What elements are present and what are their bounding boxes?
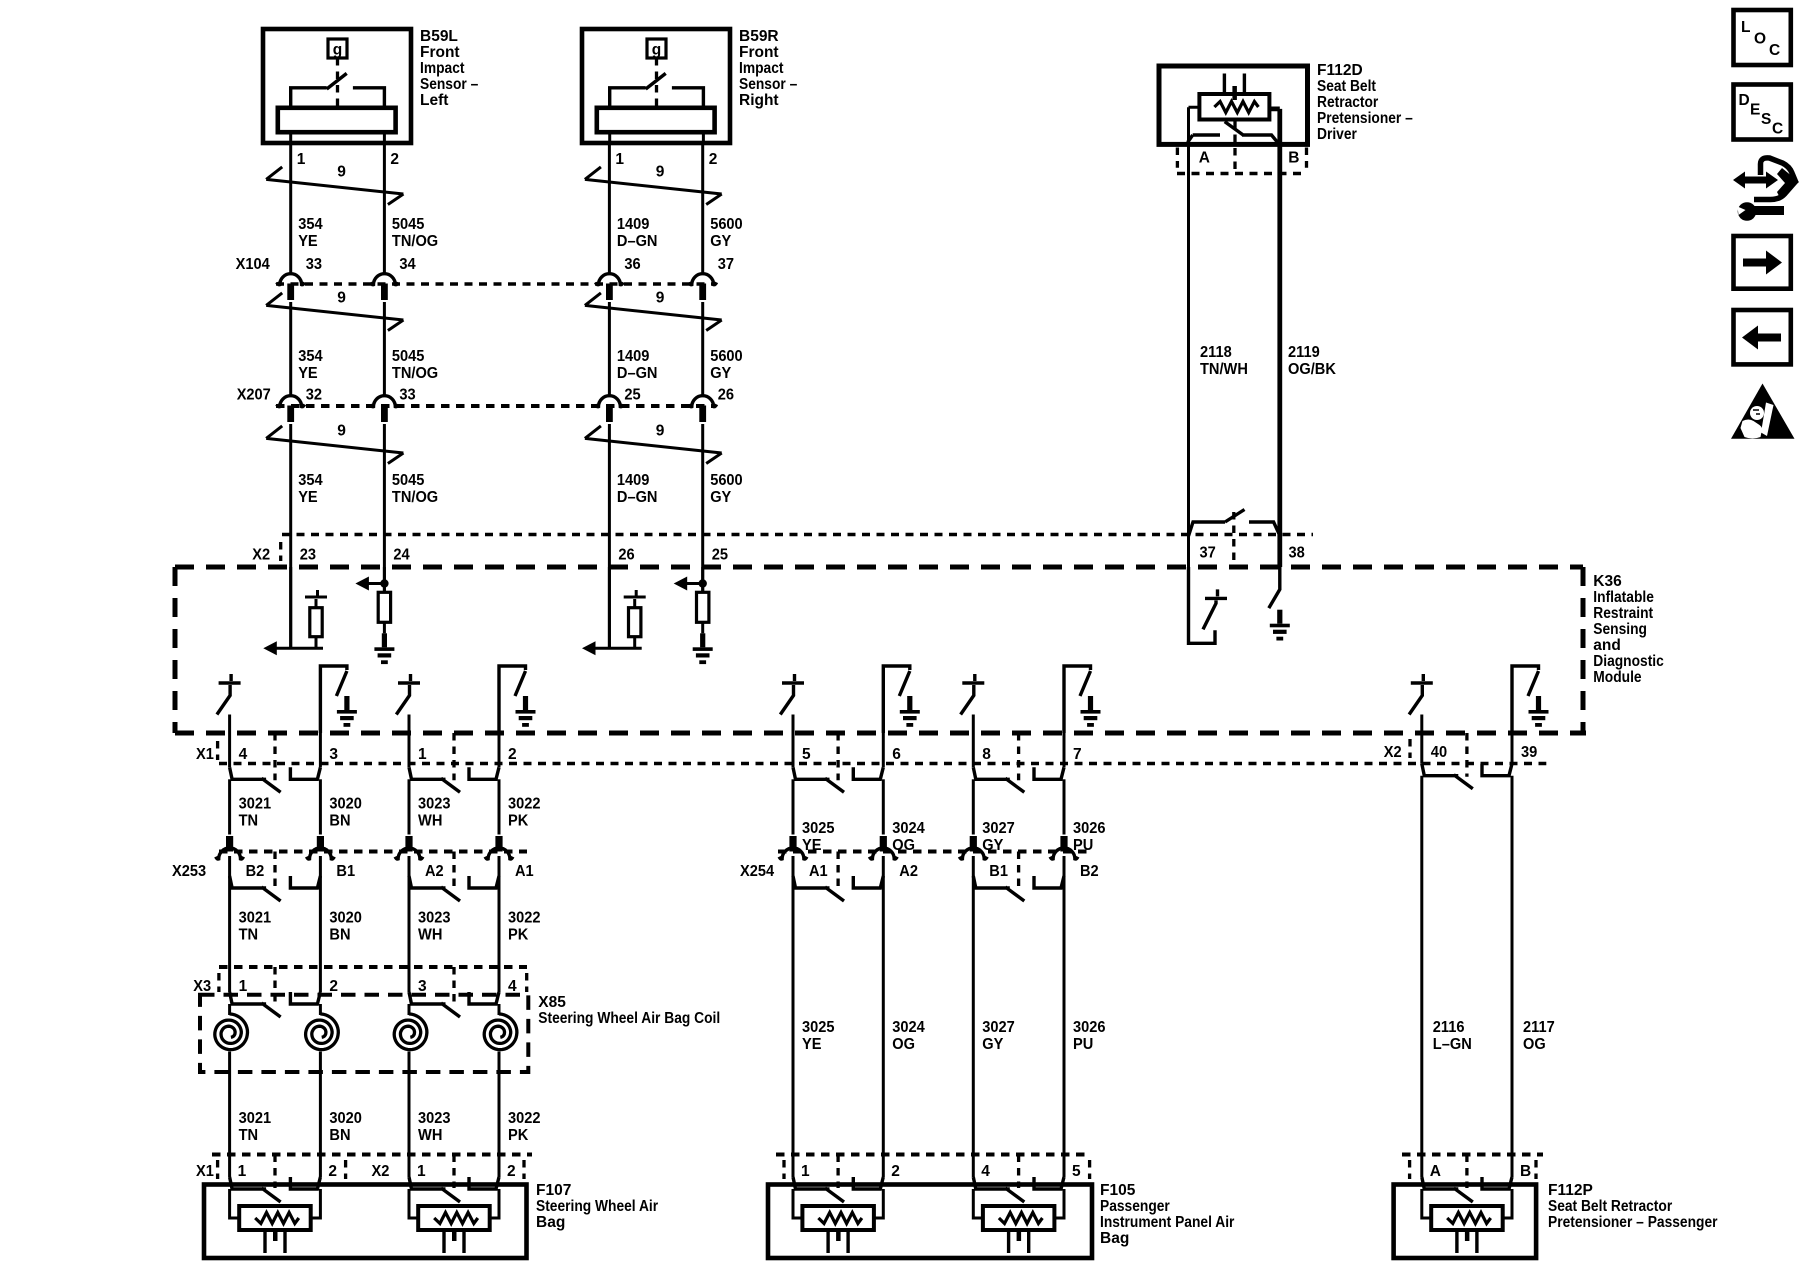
bracket at F112P pins A-B xyxy=(1465,1155,1468,1189)
component box F107 Steering Wheel Air Bag xyxy=(204,1185,527,1259)
svg-text:9: 9 xyxy=(337,290,346,307)
svg-text:3020: 3020 xyxy=(329,910,362,927)
svg-text:X2: X2 xyxy=(372,1163,390,1180)
X253 terminal A2 xyxy=(405,836,412,852)
svg-text:B1: B1 xyxy=(989,863,1008,880)
svg-text:D–GN: D–GN xyxy=(617,233,658,250)
SDM switch to ground on pin 6 xyxy=(883,666,910,733)
twisted pair marker right row 2 xyxy=(585,293,722,331)
wire pin 5 inside SDM xyxy=(792,715,795,734)
svg-text:3023: 3023 xyxy=(418,796,451,813)
svg-text:4: 4 xyxy=(981,1163,990,1180)
component box B59L Front Impact Sensor - Left xyxy=(263,29,411,143)
svg-text:TN/OG: TN/OG xyxy=(392,365,438,382)
wire 3020 BN middle segment xyxy=(319,856,322,967)
wire 5045 TN/OG row3 xyxy=(383,424,386,592)
svg-text:3021: 3021 xyxy=(239,796,272,813)
X253 terminal B2 xyxy=(226,836,233,852)
bracket at X3 pins 1-2 xyxy=(273,967,276,1005)
svg-text:C: C xyxy=(1769,42,1780,59)
wire 2117 OG segment xyxy=(1511,776,1514,1155)
svg-text:B: B xyxy=(1520,1163,1531,1180)
svg-text:Module: Module xyxy=(1593,669,1642,686)
SDM switch to ground on pin 7 xyxy=(1064,666,1091,733)
svg-text:2: 2 xyxy=(508,746,517,763)
svg-text:Steering Wheel Air Bag Coil: Steering Wheel Air Bag Coil xyxy=(538,1010,720,1027)
connector dashed line at F105 xyxy=(776,1153,1088,1157)
svg-text:TN/WH: TN/WH xyxy=(1200,361,1248,378)
svg-text:g: g xyxy=(333,42,342,59)
wire 354 YE row2 xyxy=(289,302,292,396)
wire 2118 TN/WH (F112D A to K36 X2-37) xyxy=(1187,144,1190,567)
svg-text:X1: X1 xyxy=(196,1163,214,1180)
svg-text:2116: 2116 xyxy=(1433,1019,1465,1036)
wire 3022 PK middle segment xyxy=(498,856,501,967)
svg-text:GY: GY xyxy=(710,489,732,506)
svg-text:A2: A2 xyxy=(899,863,918,880)
bracket at X253 B2-B1 xyxy=(273,852,276,890)
bracket at X3 pins 3-4 xyxy=(452,967,455,1005)
SDM driver on pin 5 xyxy=(780,674,804,715)
svg-text:BN: BN xyxy=(329,1127,350,1144)
wire 3020 BN upper segment xyxy=(319,779,322,834)
svg-text:40: 40 xyxy=(1431,744,1447,761)
wire 1409 D-GN (B59R pin 1 to X104-36) xyxy=(608,143,611,274)
svg-text:1: 1 xyxy=(417,1163,426,1180)
SDM switch to ground on pin 2 xyxy=(499,666,526,733)
air bag coil spiral at pin 1 xyxy=(228,1004,231,1015)
component box B59R Front Impact Sensor - Right xyxy=(582,29,730,143)
svg-text:24: 24 xyxy=(393,547,410,564)
svg-text:Inflatable: Inflatable xyxy=(1593,589,1654,606)
svg-text:3024: 3024 xyxy=(892,1019,925,1036)
connector X2 dashed line (SDM upper) xyxy=(282,533,1313,536)
twisted pair marker left row 1 xyxy=(266,167,403,205)
wire F112D pin B internal xyxy=(1269,109,1280,144)
svg-text:8: 8 xyxy=(982,746,991,763)
svg-text:3027: 3027 xyxy=(982,1019,1015,1036)
svg-text:D–GN: D–GN xyxy=(617,489,658,506)
X207 terminal 33 xyxy=(371,396,399,407)
svg-text:F105: F105 xyxy=(1100,1182,1136,1199)
svg-text:1409: 1409 xyxy=(617,472,650,489)
svg-text:A1: A1 xyxy=(515,863,534,880)
connector X254 dashed line xyxy=(778,850,1090,854)
connector X104 dashed line xyxy=(276,282,714,285)
svg-text:E: E xyxy=(1750,102,1760,119)
svg-text:3025: 3025 xyxy=(802,1019,835,1036)
X254 terminal B2 xyxy=(1060,836,1067,852)
SDM internal driver on pin 37 xyxy=(1189,567,1216,643)
svg-text:26: 26 xyxy=(618,547,635,564)
svg-text:2118: 2118 xyxy=(1200,344,1232,361)
bracket at X253 A2-A1 xyxy=(452,852,455,890)
svg-text:F107: F107 xyxy=(536,1182,571,1199)
svg-text:5: 5 xyxy=(1072,1163,1081,1180)
wire pin 1 inside SDM xyxy=(408,715,411,734)
connector X1 of F112D (pins A, B) xyxy=(1177,148,1306,168)
X104 terminal 37 xyxy=(689,274,717,285)
SDM switch to ground on pin 39 xyxy=(1512,666,1539,733)
svg-text:PK: PK xyxy=(508,927,529,944)
svg-text:9: 9 xyxy=(656,164,665,181)
svg-text:TN: TN xyxy=(239,927,259,944)
bracket at X2 pins 40-39 xyxy=(1465,733,1468,777)
svg-text:3026: 3026 xyxy=(1073,820,1106,837)
svg-text:A: A xyxy=(1199,150,1210,167)
svg-text:B2: B2 xyxy=(1080,863,1099,880)
X254 terminal A1 xyxy=(789,836,796,852)
svg-text:3: 3 xyxy=(329,746,338,763)
svg-text:23: 23 xyxy=(300,547,317,564)
svg-text:F112P: F112P xyxy=(1548,1182,1593,1199)
SDM internal measurement arrow + resistor on pin 23 xyxy=(276,567,323,648)
svg-text:3023: 3023 xyxy=(418,910,451,927)
svg-text:26: 26 xyxy=(718,387,735,404)
svg-text:WH: WH xyxy=(418,1127,442,1144)
svg-text:33: 33 xyxy=(399,387,416,404)
svg-text:PK: PK xyxy=(508,1127,529,1144)
svg-text:38: 38 xyxy=(1289,545,1306,562)
svg-text:X3: X3 xyxy=(193,978,211,995)
svg-text:354: 354 xyxy=(298,216,323,233)
svg-text:39: 39 xyxy=(1521,744,1538,761)
svg-text:GY: GY xyxy=(710,233,732,250)
wire 5600 GY (B59R pin 2 to X104-37) xyxy=(701,143,704,274)
X104 terminal 33 xyxy=(277,274,305,285)
wire 5600 GY row3 xyxy=(701,424,704,592)
svg-text:5045: 5045 xyxy=(392,216,425,233)
svg-text:X85: X85 xyxy=(538,994,566,1011)
component box F112P Seat Belt Retractor Pretensioner - Passenger xyxy=(1394,1185,1537,1259)
svg-text:Pretensioner –: Pretensioner – xyxy=(1317,110,1413,127)
svg-text:2: 2 xyxy=(709,151,718,168)
svg-text:3022: 3022 xyxy=(508,1110,541,1127)
svg-text:2: 2 xyxy=(390,151,399,168)
icon adjustable harness (arrow and wrench) xyxy=(1733,172,1778,189)
wire pin 4 inside SDM xyxy=(228,715,231,734)
svg-text:X104: X104 xyxy=(236,256,270,273)
svg-text:OG: OG xyxy=(1523,1036,1546,1053)
wire 3025 YE lower segment xyxy=(792,856,795,1155)
svg-text:D–GN: D–GN xyxy=(617,365,658,382)
svg-text:S: S xyxy=(1761,111,1771,128)
svg-text:B: B xyxy=(1288,150,1299,167)
component box X85 Steering Wheel Air Bag Coil xyxy=(200,995,528,1072)
wire 3021 TN lower segment xyxy=(228,1072,231,1155)
svg-text:3022: 3022 xyxy=(508,796,541,813)
svg-text:7: 7 xyxy=(1073,746,1082,763)
svg-text:Passenger: Passenger xyxy=(1100,1198,1170,1215)
X207 terminal 32 xyxy=(277,396,305,407)
wire 3023 WH middle segment xyxy=(408,856,411,967)
svg-text:3024: 3024 xyxy=(892,820,925,837)
svg-text:TN: TN xyxy=(239,1127,259,1144)
svg-text:K36: K36 xyxy=(1593,573,1622,590)
svg-text:TN: TN xyxy=(239,813,259,830)
svg-text:Impact: Impact xyxy=(420,60,465,77)
SDM driver on pin 40 xyxy=(1409,674,1433,715)
svg-text:A: A xyxy=(1430,1163,1441,1180)
svg-text:1409: 1409 xyxy=(617,216,650,233)
svg-text:3: 3 xyxy=(418,978,427,995)
svg-text:Seat Belt: Seat Belt xyxy=(1317,78,1376,95)
svg-text:2119: 2119 xyxy=(1288,344,1320,361)
connector X253 dashed line xyxy=(219,850,527,854)
svg-text:WH: WH xyxy=(418,927,442,944)
SDM driver on pin 8 xyxy=(961,674,985,715)
svg-text:Driver: Driver xyxy=(1317,126,1357,143)
svg-text:3023: 3023 xyxy=(418,1110,451,1127)
connector dashed line at F107 xyxy=(212,1153,532,1157)
svg-text:9: 9 xyxy=(337,164,346,181)
component box F105 Passenger Instrument Panel Air Bag xyxy=(768,1185,1092,1259)
icon arrow left xyxy=(1734,310,1791,364)
wire 1409 D-GN row3 xyxy=(608,424,611,648)
icon DESC xyxy=(1734,85,1791,140)
wire 5600 GY row2 xyxy=(701,302,704,396)
squib igniter right in F105 xyxy=(983,1206,1055,1230)
svg-text:2: 2 xyxy=(329,978,338,995)
svg-text:Bag: Bag xyxy=(536,1214,565,1231)
svg-text:Retractor: Retractor xyxy=(1317,94,1378,111)
icon arrow right xyxy=(1734,236,1791,289)
wire 5045 TN/OG (B59L pin 2 to X104-34) xyxy=(383,143,386,274)
svg-text:4: 4 xyxy=(508,978,517,995)
svg-text:25: 25 xyxy=(712,547,729,564)
X207 terminal 25 xyxy=(596,396,624,407)
wire F112D pin A internal xyxy=(1189,107,1200,144)
svg-text:Seat Belt Retractor: Seat Belt Retractor xyxy=(1548,1198,1672,1215)
SDM driver on pin 4 xyxy=(217,674,241,715)
wire 3022 PK upper segment xyxy=(498,779,501,834)
svg-text:X253: X253 xyxy=(172,863,206,880)
svg-text:3022: 3022 xyxy=(508,910,541,927)
svg-text:3025: 3025 xyxy=(802,820,835,837)
X104 terminal 34 xyxy=(371,274,399,285)
wire 3024 OG lower segment xyxy=(882,856,885,1155)
svg-text:9: 9 xyxy=(656,290,665,307)
wire 3021 TN upper segment xyxy=(228,779,231,834)
svg-text:3026: 3026 xyxy=(1073,1019,1106,1036)
svg-text:YE: YE xyxy=(802,1036,822,1053)
svg-text:Front: Front xyxy=(420,44,460,61)
svg-text:A1: A1 xyxy=(809,863,828,880)
svg-text:Impact: Impact xyxy=(739,60,784,77)
wire 354 YE row3 xyxy=(289,424,292,648)
svg-text:OG/BK: OG/BK xyxy=(1288,361,1337,378)
svg-text:2: 2 xyxy=(507,1163,516,1180)
svg-text:34: 34 xyxy=(399,256,416,273)
svg-text:BN: BN xyxy=(329,927,350,944)
svg-text:5600: 5600 xyxy=(710,216,743,233)
svg-text:Sensor –: Sensor – xyxy=(420,76,479,93)
svg-text:B59R: B59R xyxy=(739,28,779,45)
svg-text:X2: X2 xyxy=(1384,744,1402,761)
svg-text:Right: Right xyxy=(739,92,779,109)
svg-text:and: and xyxy=(1593,637,1621,654)
squib igniter inside F112D xyxy=(1199,94,1269,120)
svg-text:X2: X2 xyxy=(252,547,270,564)
SDM driver on pin 1 xyxy=(396,674,420,715)
svg-text:2117: 2117 xyxy=(1523,1019,1555,1036)
svg-text:B1: B1 xyxy=(336,863,355,880)
SDM internal resistor to ground on pin 24 xyxy=(367,567,384,592)
wires into F112P squib xyxy=(1422,1189,1512,1218)
svg-text:PU: PU xyxy=(1073,1036,1093,1053)
wire 3023 WH upper segment xyxy=(408,779,411,834)
component box F112D Seat Belt Retractor Pretensioner - Driver xyxy=(1159,66,1308,144)
X254 terminal A2 xyxy=(880,836,887,852)
air bag coil spiral at pin 4 xyxy=(498,1004,501,1015)
svg-text:g: g xyxy=(652,42,661,59)
bracket at F107 X1 pins 1-2 xyxy=(273,1155,276,1189)
SDM switch to ground on pin 3 xyxy=(320,666,347,733)
svg-text:A2: A2 xyxy=(425,863,444,880)
svg-text:1: 1 xyxy=(239,978,248,995)
svg-text:Pretensioner – Passenger: Pretensioner – Passenger xyxy=(1548,1214,1718,1231)
twisted pair marker right row 1 xyxy=(585,167,722,205)
svg-text:WH: WH xyxy=(418,813,442,830)
wire 3023 WH lower segment xyxy=(408,1072,411,1155)
svg-text:5600: 5600 xyxy=(710,472,743,489)
switch inside F112D xyxy=(1233,121,1236,174)
icon airbag warning triangle xyxy=(1731,384,1795,439)
bracket at X1 pins 4-3 xyxy=(273,733,276,780)
svg-text:5600: 5600 xyxy=(710,348,743,365)
shorting switch at K36 X2 pins 37-38 xyxy=(1232,512,1235,565)
svg-text:TN/OG: TN/OG xyxy=(392,489,438,506)
wire 1409 D-GN row2 xyxy=(608,302,611,396)
connector X207 dashed line xyxy=(276,404,714,408)
bracket at X254 A1-A2 xyxy=(836,852,839,890)
wire 2119 OG/BK (F112D B to K36 X2-38) xyxy=(1277,144,1282,567)
svg-text:1: 1 xyxy=(238,1163,247,1180)
svg-text:37: 37 xyxy=(1200,545,1216,562)
svg-text:B2: B2 xyxy=(246,863,265,880)
bracket at F105 pins 4-5 xyxy=(1017,1155,1020,1189)
svg-text:1: 1 xyxy=(297,151,306,168)
squib igniter right in F107 xyxy=(418,1206,490,1230)
svg-text:YE: YE xyxy=(298,233,318,250)
svg-text:6: 6 xyxy=(892,746,901,763)
svg-text:F112D: F112D xyxy=(1317,62,1363,79)
svg-text:33: 33 xyxy=(306,256,323,273)
svg-text:5045: 5045 xyxy=(392,472,425,489)
wire pin 8 inside SDM xyxy=(972,715,975,734)
svg-text:354: 354 xyxy=(298,348,323,365)
svg-text:L–GN: L–GN xyxy=(1433,1036,1472,1053)
svg-text:2: 2 xyxy=(891,1163,900,1180)
wire 2116 L-GN segment xyxy=(1420,776,1423,1155)
bracket at F107 X2 pins 1-2 xyxy=(452,1155,455,1189)
svg-text:1: 1 xyxy=(418,746,427,763)
svg-text:Steering Wheel Air: Steering Wheel Air xyxy=(536,1198,658,1215)
wire 3027 GY upper segment xyxy=(972,779,975,834)
svg-text:GY: GY xyxy=(982,1036,1004,1053)
SDM internal switch to ground on pin 38 xyxy=(1269,567,1280,608)
air bag coil spiral at pin 3 xyxy=(408,1004,411,1015)
squib igniter in F112P xyxy=(1431,1206,1503,1230)
svg-text:Left: Left xyxy=(420,92,448,109)
X253 terminal A1 xyxy=(495,836,502,852)
svg-text:3020: 3020 xyxy=(329,796,362,813)
wire pin 40 inside SDM xyxy=(1420,715,1423,734)
svg-text:9: 9 xyxy=(656,423,665,440)
wire 5045 TN/OG row2 xyxy=(383,302,386,396)
svg-text:YE: YE xyxy=(298,489,318,506)
svg-text:9: 9 xyxy=(337,423,346,440)
svg-text:X207: X207 xyxy=(237,387,271,404)
svg-text:1409: 1409 xyxy=(617,348,650,365)
svg-text:X1: X1 xyxy=(196,746,214,763)
svg-text:354: 354 xyxy=(298,472,323,489)
svg-text:L: L xyxy=(1741,19,1750,36)
squib igniter left in F105 xyxy=(802,1206,874,1230)
twisted pair marker left row 2 xyxy=(266,293,403,331)
wire 3024 OG upper segment xyxy=(882,779,885,834)
svg-text:25: 25 xyxy=(624,387,641,404)
svg-text:TN/OG: TN/OG xyxy=(392,233,438,250)
X207 terminal 26 xyxy=(689,396,717,407)
SDM internal measurement arrow + resistor on pin 26 xyxy=(595,567,642,648)
svg-text:4: 4 xyxy=(239,746,248,763)
bracket at X1 pins 1-2 xyxy=(452,733,455,780)
svg-text:GY: GY xyxy=(710,365,732,382)
svg-text:32: 32 xyxy=(306,387,322,404)
svg-text:3021: 3021 xyxy=(239,910,272,927)
svg-text:3021: 3021 xyxy=(239,1110,272,1127)
svg-text:5: 5 xyxy=(802,746,811,763)
svg-text:3020: 3020 xyxy=(329,1110,362,1127)
svg-text:Restraint: Restraint xyxy=(1593,605,1653,622)
K36 module boundary xyxy=(175,567,1586,733)
svg-text:Sensing: Sensing xyxy=(1593,621,1647,638)
wire 3021 TN middle segment xyxy=(228,856,231,967)
X253 terminal B1 xyxy=(317,836,324,852)
svg-text:Instrument Panel Air: Instrument Panel Air xyxy=(1100,1214,1234,1231)
icon LOC xyxy=(1734,10,1791,65)
wire 3020 BN lower segment xyxy=(319,1072,322,1155)
bracket at X1 pins 5-6 xyxy=(836,733,839,780)
svg-text:37: 37 xyxy=(718,256,734,273)
svg-text:C: C xyxy=(1772,121,1783,138)
twisted pair marker left row 3 xyxy=(266,426,403,464)
wire 3027 GY lower segment xyxy=(972,856,975,1155)
svg-text:BN: BN xyxy=(329,813,350,830)
bracket at F105 pins 1-2 xyxy=(836,1155,839,1189)
wire 3026 PU lower segment xyxy=(1063,856,1066,1155)
bracket at X254 B1-B2 xyxy=(1017,852,1020,890)
wire 3022 PK lower segment xyxy=(498,1072,501,1155)
svg-text:Front: Front xyxy=(739,44,779,61)
wires into F107 squibs xyxy=(230,1189,321,1218)
twisted pair marker right row 3 xyxy=(585,426,722,464)
X254 terminal B1 xyxy=(970,836,977,852)
svg-text:1: 1 xyxy=(615,151,624,168)
connector X1 dashed line (SDM lower) xyxy=(219,762,1546,765)
svg-text:2: 2 xyxy=(328,1163,337,1180)
svg-text:OG: OG xyxy=(892,1036,915,1053)
wire 3026 PU upper segment xyxy=(1063,779,1066,834)
air bag coil spiral at pin 2 xyxy=(319,1004,322,1015)
svg-text:1: 1 xyxy=(801,1163,810,1180)
svg-text:Sensor –: Sensor – xyxy=(739,76,798,93)
svg-text:PK: PK xyxy=(508,813,529,830)
svg-text:O: O xyxy=(1754,31,1766,48)
connector X3 dashed line xyxy=(219,965,527,969)
svg-text:5045: 5045 xyxy=(392,348,425,365)
